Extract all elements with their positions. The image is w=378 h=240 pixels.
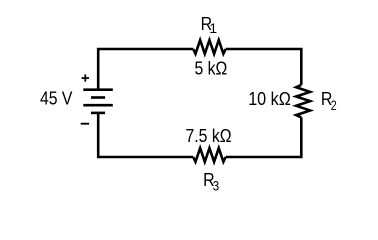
wire top-left: battery positive plate up and right to R1 [98,49,193,90]
resistor R2 [296,85,310,118]
resistor R1 [193,40,226,54]
svg-text:5 kΩ: 5 kΩ [195,58,228,78]
svg-text:2: 2 [331,98,337,114]
svg-text:7.5 kΩ: 7.5 kΩ [186,126,232,146]
svg-text:10 kΩ: 10 kΩ [248,89,291,109]
svg-text:1: 1 [209,21,217,37]
resistor R3 [193,148,226,162]
battery plus sign [82,74,89,81]
battery B1 short plate (bottom, -) [91,112,105,115]
battery B1 long plate (lower) [83,104,113,107]
svg-text:45 V: 45 V [40,89,72,109]
battery B1 long plate (top, +) [83,88,113,91]
svg-text:3: 3 [213,179,219,195]
wire top-right: R1 right to R2 top [226,49,302,85]
wire bottom-left: R3 left to battery negative plate [98,113,193,157]
battery B1 short plate [91,96,105,99]
battery minus sign [81,123,89,125]
wire bottom-right: R2 bottom to R3 right [226,117,302,157]
